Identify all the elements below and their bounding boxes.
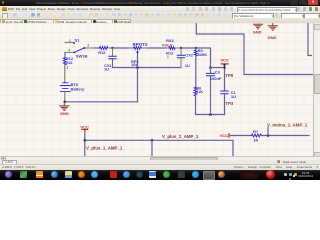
svg-text:100nF: 100nF xyxy=(210,76,222,81)
svg-text:512: 512 xyxy=(66,60,73,65)
svg-text:VCC: VCC xyxy=(220,133,229,138)
wire top: switch to R12a xyxy=(94,47,100,49)
svg-text:1: 1 xyxy=(69,39,71,43)
svg-text:1U: 1U xyxy=(104,66,109,71)
svg-text:620K: 620K xyxy=(198,52,208,57)
wire battery to gnd junction xyxy=(64,91,66,101)
wire VCC down through C1 xyxy=(224,68,226,91)
ground GND (battery) xyxy=(60,102,69,115)
svg-text:2: 2 xyxy=(87,43,89,47)
wire R12v to battery xyxy=(64,65,66,83)
resistor R6 41K xyxy=(194,85,203,95)
power port VCC (bottom-left) xyxy=(80,125,89,132)
junction node (CX2 tap) xyxy=(180,47,182,49)
junction node (VCC / C3 top rail) xyxy=(209,66,212,69)
wire stub up at x268 xyxy=(267,127,269,135)
junction node + stub down xyxy=(151,139,154,142)
svg-text:S1: S1 xyxy=(75,38,80,42)
junction node (battery / gnd / rail) xyxy=(64,101,67,104)
svg-text:Battery: Battery xyxy=(71,87,86,92)
wire: pot to R12b xyxy=(147,47,166,49)
wire mid rail xyxy=(113,67,182,69)
wire VCC to R7 xyxy=(230,135,252,137)
junction node (R3 tap) xyxy=(195,47,197,49)
svg-text:3: 3 xyxy=(68,49,70,53)
capacitor CX2 1U xyxy=(177,48,193,68)
svg-text:V_plus_1_AMP_1: V_plus_1_AMP_1 xyxy=(86,145,123,150)
svg-text:V_moins_1_AMP_1: V_moins_1_AMP_1 xyxy=(267,123,308,128)
svg-text:RPOTX: RPOTX xyxy=(133,42,148,47)
wire left rail (switch to battery) xyxy=(64,52,66,57)
wire VCC drop + long bottom rail xyxy=(84,131,86,156)
wire R3 to R6 xyxy=(195,56,197,87)
resistor R12 (horizontal, left) xyxy=(98,47,112,55)
junction node + stub up xyxy=(267,134,270,137)
svg-text:V_plus_2_AMP_1: V_plus_2_AMP_1 xyxy=(162,134,199,139)
power port VCC (bottom-right) xyxy=(220,133,229,138)
svg-text:GND: GND xyxy=(253,30,262,35)
wire top: to R3 junction xyxy=(181,47,196,49)
switch S1 xyxy=(65,38,94,58)
svg-text:VCC: VCC xyxy=(220,57,229,62)
ground GND (top, left symbol) xyxy=(253,24,263,34)
schematic canvas xyxy=(0,23,313,156)
svg-text:RX2: RX2 xyxy=(166,38,175,43)
svg-text:GND: GND xyxy=(60,111,69,116)
wire stub down at x152 xyxy=(151,140,153,156)
wire right edge stub xyxy=(308,23,312,56)
svg-text:1: 1 xyxy=(167,55,169,59)
potentiometer RP6 10k xyxy=(129,42,148,67)
svg-text:1K: 1K xyxy=(253,137,258,142)
capacitor CX1 1U xyxy=(104,48,116,71)
svg-text:R12: R12 xyxy=(98,50,106,55)
wire VCC feed horizontal xyxy=(211,67,225,69)
resistor R3 620K xyxy=(194,48,207,57)
menu bar xyxy=(0,6,320,12)
resistor R12 (horizontal, right) with designator RX2 xyxy=(166,38,182,59)
svg-text:SW1B: SW1B xyxy=(76,54,88,59)
wire top: to potentiometer xyxy=(113,47,129,49)
ground GND (top, right symbol) xyxy=(268,23,278,40)
junction node (C3 bottom) xyxy=(209,113,212,116)
power port VCC (top) xyxy=(220,57,229,67)
junction node (pot wiper on mid rail) xyxy=(136,66,139,69)
svg-text:R?: R? xyxy=(253,129,259,134)
wire top: to corner, down to C3 branch xyxy=(196,48,211,68)
svg-text:TP3: TP3 xyxy=(225,101,233,106)
junction node (CX1 tap) xyxy=(111,47,113,49)
wire GND loop (from off-sheet top, around right) xyxy=(196,23,313,75)
svg-text:1U: 1U xyxy=(231,94,236,99)
document tabs xyxy=(0,18,320,24)
resistor R? 1K xyxy=(252,129,262,142)
wire R7 to right xyxy=(262,135,310,137)
wire bottom-left rail xyxy=(65,101,138,103)
wire R6 to bottom net rail xyxy=(196,96,225,115)
wire wiper vertical + down to bottom-left rail xyxy=(137,57,139,102)
svg-text:CX2: CX2 xyxy=(185,53,194,58)
svg-text:TP9: TP9 xyxy=(225,73,233,78)
svg-text:GND: GND xyxy=(268,35,277,40)
capacitor C3 100nF xyxy=(207,68,222,115)
svg-text:1: 1 xyxy=(66,65,68,69)
capacitor C1 1U xyxy=(221,90,237,115)
windows taskbar xyxy=(0,170,320,181)
toolbar xyxy=(0,12,320,18)
svg-text:41K: 41K xyxy=(196,89,203,94)
svg-text:C3: C3 xyxy=(215,70,221,75)
svg-text:1U: 1U xyxy=(185,63,190,68)
resistor R12 (vertical on left rail) xyxy=(63,56,74,69)
battery BT6 xyxy=(60,82,85,91)
title bar xyxy=(0,0,320,6)
